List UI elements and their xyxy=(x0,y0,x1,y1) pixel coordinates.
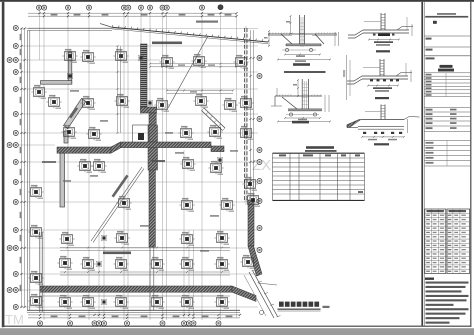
grid bubble bottom 7 xyxy=(160,321,165,326)
svg-text:TM: TM xyxy=(5,312,24,327)
grid bubble left 11 xyxy=(13,200,18,205)
footing F49 xyxy=(28,294,43,308)
page bottom border xyxy=(2,326,472,327)
grid bubble top 6 xyxy=(126,5,131,10)
footing F9 xyxy=(46,95,61,109)
grid bubble right 5 xyxy=(257,160,262,165)
grid bubble right 3 xyxy=(257,117,262,122)
footing F48 xyxy=(214,295,229,309)
detail D2 (footing section, asymmetric) xyxy=(271,79,331,123)
grid bubble top 12 (filled) xyxy=(218,5,223,10)
titleblock rebar schedule xyxy=(425,209,470,274)
svg-text:ZX: ZX xyxy=(252,157,271,174)
grid bubble bottom 5 xyxy=(102,321,107,326)
boundary wall right (dashed double) xyxy=(245,28,248,202)
retaining wall diagonal top with ticks xyxy=(112,25,269,44)
wall W4 end segment xyxy=(211,146,224,152)
footing F2 xyxy=(80,50,95,64)
grid bubble top 5 xyxy=(122,5,127,10)
footing F5 xyxy=(191,54,206,68)
grid bubble left 13 xyxy=(13,246,18,251)
grid bubble left 14 xyxy=(13,272,18,277)
grid bubble left 4 xyxy=(13,70,18,75)
footing F29 xyxy=(245,193,260,207)
diagonal line W8 (slab edge) xyxy=(91,167,144,243)
beam W6 vertical below band xyxy=(60,153,65,207)
footing F42 xyxy=(28,271,43,285)
detail D2 label xyxy=(292,121,309,124)
detail D3 (wall footing section) xyxy=(348,13,413,46)
dimension line left xyxy=(20,27,26,308)
grid bubble right 4 xyxy=(257,148,262,153)
grid bubble left pair xyxy=(7,288,12,293)
footing F13 xyxy=(193,94,208,108)
footing F28 xyxy=(219,198,234,212)
column C6 xyxy=(217,157,223,163)
boundary wall bottom (double line) xyxy=(27,310,240,312)
title block signature rows xyxy=(424,73,470,97)
footing F24 xyxy=(242,177,257,191)
titleblock notes lines xyxy=(426,282,469,324)
grid bubble top 2 xyxy=(42,5,47,10)
misc tiny labels xyxy=(63,90,238,252)
footing F40 xyxy=(214,257,229,271)
title block inner edge xyxy=(423,2,425,326)
grid bubble left 10 xyxy=(13,180,18,185)
footing F36 xyxy=(80,257,95,271)
footing F15 xyxy=(238,96,253,110)
text anti-water slab note 1 xyxy=(152,42,182,45)
wall W9 diagonal end xyxy=(232,286,256,302)
grid bubble bottom 3 xyxy=(92,321,97,326)
footing F23 xyxy=(208,161,223,175)
beam W5 horizontal arm xyxy=(41,81,72,85)
wall face line below band xyxy=(40,295,230,297)
footing F41 xyxy=(240,255,255,269)
footing F31 xyxy=(59,232,74,246)
footing F7 xyxy=(31,85,46,99)
column C4 xyxy=(96,261,102,267)
grid lines horizontal xyxy=(18,29,258,308)
grid bubble top 7 xyxy=(139,5,144,10)
footing F39 xyxy=(179,257,194,271)
footing F21 xyxy=(91,159,106,173)
grid bubble left 9 xyxy=(13,160,18,165)
wall W4 mid band right xyxy=(121,142,212,148)
footing F22 xyxy=(180,157,195,171)
grid bubble right 1 xyxy=(257,56,262,61)
interior dim chain upper xyxy=(149,63,238,68)
footing F3 xyxy=(113,49,128,63)
title block revision table xyxy=(424,141,470,167)
footing F30 xyxy=(28,225,43,239)
grid bubble top 4 xyxy=(87,5,92,10)
interior dim chain vertical xyxy=(117,45,121,134)
grid bubble bottom 10 xyxy=(191,321,196,326)
detail D4 left dim stack xyxy=(343,55,350,100)
grid bubble bottom 8 xyxy=(182,321,187,326)
text label left boundary mid xyxy=(42,161,56,163)
title block logo stamp xyxy=(433,21,437,24)
text label right of wall at band xyxy=(152,160,165,162)
grid bubble left 16 xyxy=(13,305,18,310)
grid bubble bottom 6 xyxy=(125,321,130,326)
column C5 xyxy=(101,299,107,305)
detail D1 (footing section) xyxy=(264,15,339,62)
diagonal ramp B xyxy=(202,108,226,131)
footing F43 xyxy=(57,295,72,309)
wall W2 vertical lower xyxy=(149,148,155,247)
title block drawing title text xyxy=(438,65,454,72)
title block left edge xyxy=(421,2,423,326)
grid bubble top 11 xyxy=(200,5,205,10)
wall W9 bottom band xyxy=(40,286,232,292)
detail D3 label xyxy=(376,50,390,52)
grid bubble left pair xyxy=(7,143,12,148)
grid bubble bottom 2 xyxy=(68,321,73,326)
detail D5 (deep wall footing section) xyxy=(347,105,420,141)
page left border bar xyxy=(2,2,5,327)
column C3 xyxy=(101,235,107,241)
grid bubble bottom 9 xyxy=(187,321,192,326)
footing F8 xyxy=(61,125,76,139)
grid bubble right 6 xyxy=(257,179,262,184)
wall W10 diagonal xyxy=(248,246,262,276)
footing F6 xyxy=(233,55,248,69)
table title underline (thick) xyxy=(305,150,337,152)
page right border xyxy=(470,2,471,327)
footing F19 xyxy=(238,126,253,140)
grid bubble top 3 xyxy=(66,5,71,10)
footing F46 xyxy=(149,295,164,309)
footing F17 xyxy=(178,126,193,140)
detail D4 (wall footing section) xyxy=(347,59,412,92)
wall W2 footing junction block xyxy=(133,125,150,147)
footing F26 xyxy=(116,196,131,210)
grid bubble left 7 xyxy=(13,131,18,136)
grid bubble top 9 xyxy=(160,5,165,10)
footing F32 xyxy=(114,231,129,245)
schedule table (mid) xyxy=(273,153,365,200)
beam W7 diagonal label xyxy=(69,107,78,118)
column C1 xyxy=(138,55,144,61)
footing F33 xyxy=(179,232,194,246)
grid bubble left 15 xyxy=(13,288,18,293)
footing F20 xyxy=(77,159,92,173)
dimension line top xyxy=(28,12,238,17)
wall W1 jog connector xyxy=(141,107,157,113)
footing F14 xyxy=(222,98,237,112)
diagonal line A xyxy=(168,36,208,108)
grid bubble right 7 xyxy=(257,199,262,204)
wall W3 step xyxy=(111,142,121,153)
footing F10 xyxy=(80,96,95,110)
wall W2 band junction widening xyxy=(148,125,158,170)
footing F37 xyxy=(113,257,128,271)
footing F45 xyxy=(113,295,128,309)
footing F27 xyxy=(179,198,194,212)
table title text xyxy=(306,146,334,149)
footing F25 xyxy=(28,185,43,199)
wall W2 thin continuation below xyxy=(150,247,154,310)
corner ramp bottom-right diagonals xyxy=(244,270,281,319)
footing F12 xyxy=(154,98,169,112)
title block info rows xyxy=(424,108,470,132)
wall W10 right vertical xyxy=(248,200,254,246)
grid bubble left 2 xyxy=(13,44,18,49)
grid bubble left 6 xyxy=(13,112,18,117)
dimension line right xyxy=(249,30,254,251)
grid bubble left 1 xyxy=(13,26,18,31)
footing F11 xyxy=(114,94,129,108)
grid bubble top 8 xyxy=(148,5,153,10)
footing F35 xyxy=(57,256,72,270)
interior dim chain mid-low xyxy=(60,247,230,251)
column C7 xyxy=(67,73,73,79)
title block row lines upper xyxy=(424,36,470,59)
footing F4 xyxy=(159,55,174,69)
grid bubble left 8 xyxy=(13,143,18,148)
plan title text xyxy=(279,302,319,307)
text anti-water slab note 2 xyxy=(103,252,131,255)
grid bubble bottom 1 xyxy=(38,321,43,326)
text note on diagonal W8 xyxy=(112,175,129,198)
grid bubble right 2 xyxy=(257,74,262,79)
grid bubble left 12 xyxy=(13,228,18,233)
detail D4 label xyxy=(375,97,389,99)
title block company text xyxy=(425,13,468,17)
grid bubble top 10 xyxy=(164,5,169,10)
page top border xyxy=(0,0,474,2)
wall W3 mid band left xyxy=(57,147,111,153)
footing F47 xyxy=(179,295,194,309)
interior dim pair right of wall xyxy=(166,90,234,94)
footing F44 xyxy=(80,295,95,309)
plan title scale xyxy=(323,306,330,308)
dimension line bottom xyxy=(28,314,241,319)
boundary wall top-left (double line) xyxy=(28,28,112,30)
footing F38 xyxy=(149,257,164,271)
detail D1 label xyxy=(293,63,310,66)
titleblock notes heading xyxy=(425,278,434,280)
footing F16 xyxy=(86,127,101,141)
top-left short diagonal xyxy=(100,24,112,28)
footing F1 xyxy=(62,49,77,63)
grid bubble left pair xyxy=(7,246,12,251)
beam W5 vertical upper-left xyxy=(68,52,72,84)
text top label near diagonal xyxy=(196,21,218,23)
grid bubble left 5 xyxy=(13,87,18,92)
grid lines vertical xyxy=(40,8,247,320)
footing F34 xyxy=(214,231,229,245)
plan title underline xyxy=(278,309,321,311)
interior dim chain low xyxy=(60,271,230,275)
grid bubble left 3 xyxy=(13,58,18,63)
vertical wall line bottom-left x40 xyxy=(40,232,42,312)
wall W2 vertical mid xyxy=(149,113,156,148)
boundary wall left (double line) xyxy=(28,30,30,310)
grid bubble bottom 11 xyxy=(216,321,221,326)
bottom grey strip xyxy=(0,328,474,335)
column C2 xyxy=(147,100,153,106)
grid bubble right 8 xyxy=(257,226,262,231)
beam W7 diagonal upper-left xyxy=(64,99,86,129)
beam W6 vertical above band xyxy=(64,131,68,143)
detail D5 label xyxy=(374,143,389,145)
footing F18 xyxy=(207,125,222,139)
grid bubble right 9 xyxy=(257,248,262,253)
grid bubble bottom 4 xyxy=(97,321,102,326)
detail D1 title underline (thick) xyxy=(284,71,326,73)
wall W1 vertical upper xyxy=(141,44,148,110)
grid bubble left pair xyxy=(7,58,12,63)
grid bubble top 1 xyxy=(37,5,42,10)
